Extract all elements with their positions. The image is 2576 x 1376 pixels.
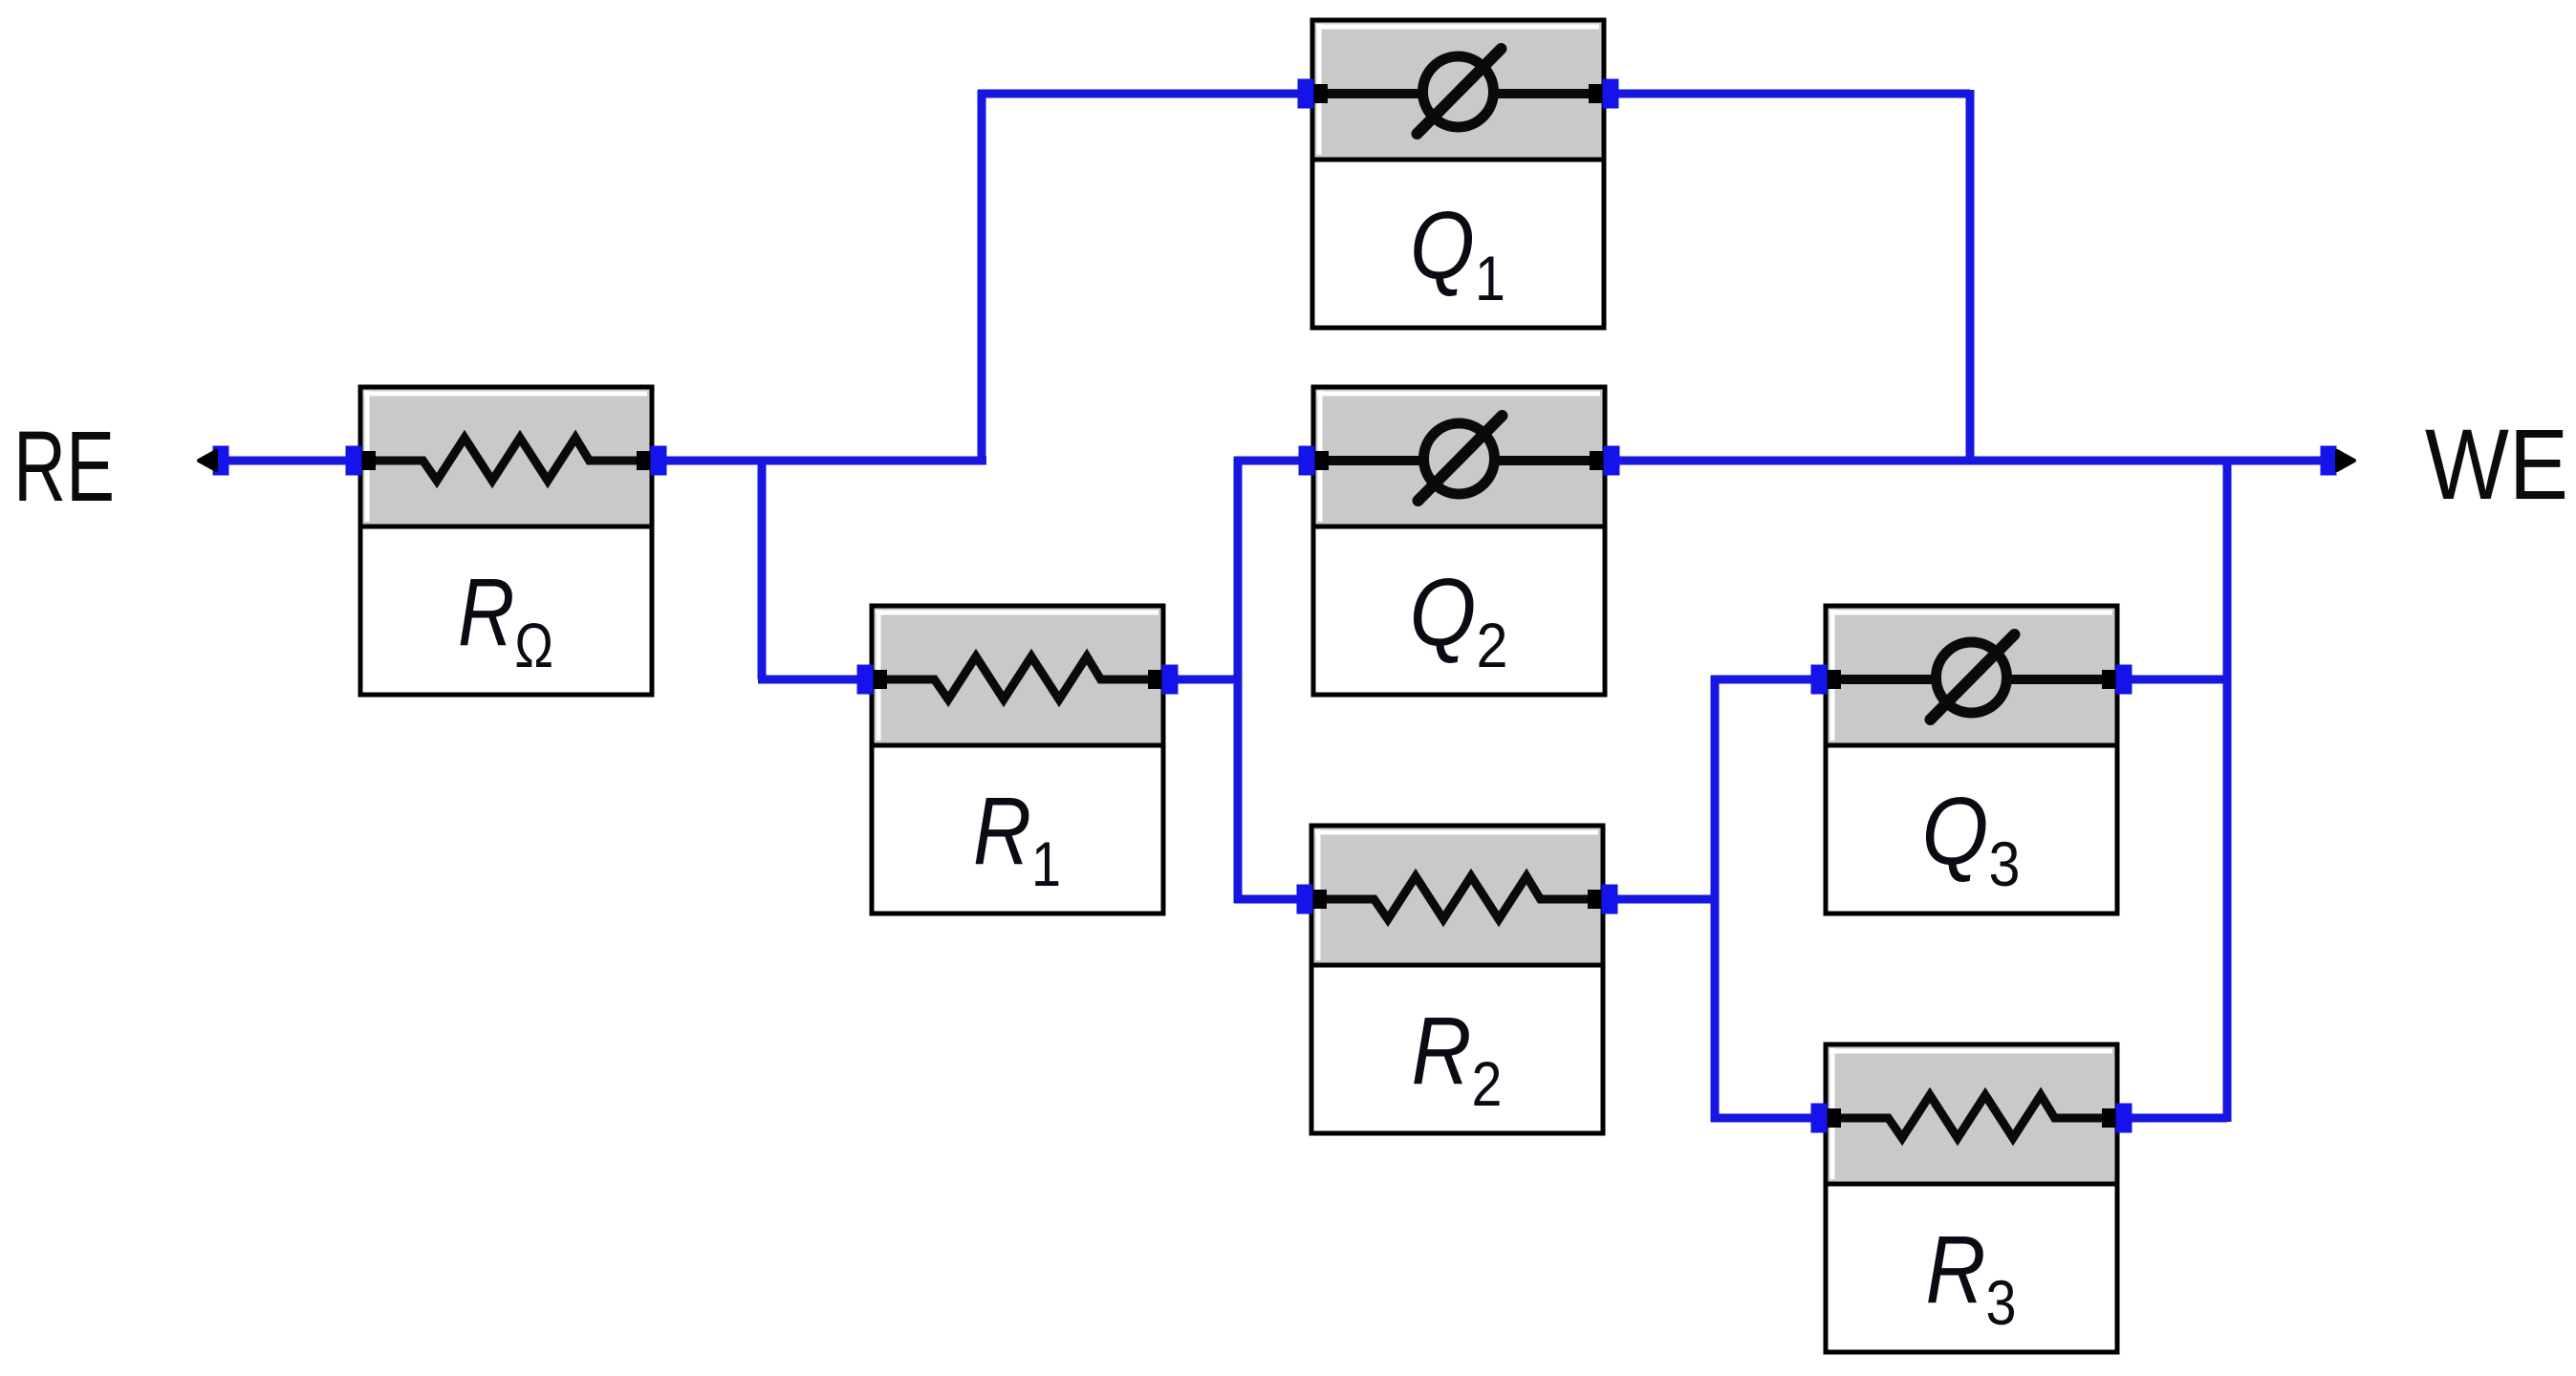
wire node A riser to R1 left bbox=[758, 676, 872, 684]
wire node C vertical bbox=[1711, 676, 1720, 1122]
wire node A down-riser to R1 branch bbox=[758, 457, 767, 679]
resistor R3 symbol box bbox=[1826, 1044, 2117, 1184]
wire node C to Q3 left bbox=[1711, 676, 1826, 684]
wire R3 right to right bus bbox=[2117, 1114, 2227, 1123]
node R3 right pin (terminal square) bbox=[2116, 1104, 2132, 1133]
resistor R2 symbol box bbox=[1311, 826, 1603, 965]
wire R2 right to node C bbox=[1603, 895, 1715, 904]
node Q1 right pin (terminal square) bbox=[1603, 79, 1619, 109]
wire Q1 branch riser bbox=[978, 90, 986, 464]
wire Q3 right to right bus bbox=[2117, 676, 2227, 684]
CPE Q3 symbol box bbox=[1826, 606, 2117, 745]
WE terminal arrow bbox=[2337, 451, 2354, 470]
wire Q1 right to corner bbox=[1604, 90, 1970, 98]
RE terminal arrow bbox=[199, 451, 216, 470]
node R3 left pin (terminal square) bbox=[1811, 1104, 1828, 1133]
CPE Q1 label box bbox=[1312, 160, 1604, 328]
wire right bus (WE node) bbox=[2223, 457, 2232, 1122]
wire node B vertical bbox=[1234, 457, 1243, 903]
resistor R1 symbol box bbox=[872, 606, 1163, 745]
wire RE terminal to R_ohm bbox=[227, 457, 360, 465]
node Q3 right pin (terminal square) bbox=[2116, 665, 2132, 695]
node R2 right pin (terminal square) bbox=[1602, 885, 1618, 914]
node WE stub (terminal square) bbox=[2321, 446, 2337, 476]
node Q2 right pin (terminal square) bbox=[1604, 446, 1620, 476]
wire riser to Q1 left bbox=[978, 90, 1312, 98]
svg-text:RE: RE bbox=[13, 411, 115, 523]
CPE Q2 symbol box bbox=[1313, 387, 1605, 527]
wire node B to R2 left bbox=[1234, 895, 1311, 904]
node R_ohm left pin (terminal square) bbox=[346, 446, 362, 476]
node R2 left pin (terminal square) bbox=[1297, 885, 1313, 914]
CPE Q2 label box bbox=[1313, 527, 1605, 695]
wire node C to R3 left bbox=[1711, 1114, 1826, 1123]
node Q1 left pin (terminal square) bbox=[1298, 79, 1314, 109]
resistor R_ohm label box bbox=[360, 527, 652, 695]
wire node B to Q2 left bbox=[1234, 457, 1313, 465]
node Q2 left pin (terminal square) bbox=[1299, 446, 1315, 476]
node Q3 left pin (terminal square) bbox=[1811, 665, 1828, 695]
CPE Q1 symbol box bbox=[1312, 20, 1604, 160]
resistor R1 label box bbox=[872, 745, 1163, 914]
resistor R_ohm symbol box bbox=[360, 387, 652, 527]
node RE stub (terminal square) bbox=[213, 446, 229, 476]
wire R1 right to node B bbox=[1163, 676, 1238, 684]
node R1 left pin (terminal square) bbox=[857, 665, 874, 695]
wire Q1 corner down to main bbox=[1966, 90, 1975, 464]
resistor R2 label box bbox=[1311, 965, 1603, 1133]
CPE Q3 label box bbox=[1826, 745, 2117, 914]
wire Q2 right to WE (main line) bbox=[1605, 457, 2321, 465]
svg-text:WE: WE bbox=[2425, 409, 2568, 521]
wire R_ohm to node A (main line) bbox=[652, 457, 986, 465]
resistor R3 label box bbox=[1826, 1184, 2117, 1352]
node R1 right pin (terminal square) bbox=[1162, 665, 1179, 695]
node R_ohm right pin (terminal square) bbox=[651, 446, 667, 476]
